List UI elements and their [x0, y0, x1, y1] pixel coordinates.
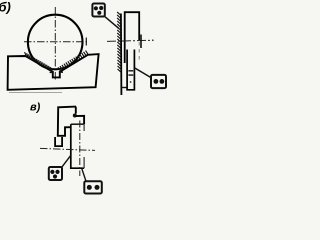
pivot dot — [73, 114, 77, 118]
leader from bar to square 4 — [82, 168, 86, 181]
hatched wall line — [120, 14, 123, 96]
shadow line under block — [9, 91, 62, 93]
tick on centerline right end — [85, 38, 87, 46]
wall hatch ticks — [117, 12, 121, 73]
leader from square 1 to wall — [105, 16, 119, 28]
svg-text:в): в) — [30, 102, 41, 114]
svg-text:б): б) — [0, 0, 11, 15]
hatch comb on right V face — [58, 51, 88, 72]
workpiece rectangle — [125, 12, 140, 63]
horizontal centerline of cylinder — [24, 41, 89, 43]
horizontal axis of right figure — [107, 40, 151, 41]
vertical axis of bar — [79, 121, 81, 177]
clamp symbol square 4 (two dots) — [84, 181, 102, 193]
pin internal dashes — [128, 71, 133, 75]
V-block outline — [8, 54, 99, 90]
leader from bar to square 3 — [62, 155, 71, 167]
ledge tick at wall bottom — [121, 87, 127, 89]
workpiece cylinder (circle) — [28, 15, 83, 70]
pin rectangle — [127, 50, 134, 90]
clamp nose step — [76, 116, 84, 124]
clamp symbol square 1 (three dots) — [92, 4, 104, 17]
clamp symbol square 3 (three dots) — [49, 167, 62, 180]
support block under clamp — [55, 137, 62, 146]
horizontal axis of bottom figure — [40, 148, 95, 150]
vertical centerline of cylinder — [54, 7, 56, 81]
bar right edge (broken) — [83, 124, 85, 168]
workpiece bar — [71, 124, 84, 168]
clamp symbol square 2 (two dots) — [151, 75, 166, 88]
hatch comb on left V face — [25, 52, 53, 71]
bold tick crossing axis — [140, 35, 142, 49]
clamp body outline — [58, 107, 76, 136]
leader from pin to square 2 — [135, 68, 151, 78]
workpiece right edge lower (faint) — [138, 42, 140, 63]
V notch flanges — [50, 71, 63, 73]
